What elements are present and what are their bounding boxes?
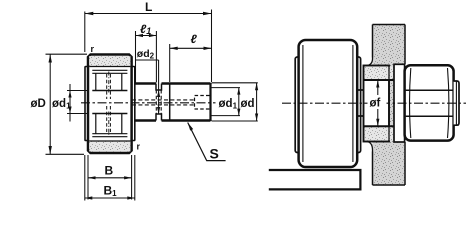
- svg-text:ød1: ød1: [219, 98, 238, 111]
- svg-text:r: r: [137, 142, 141, 152]
- svg-text:øD: øD: [31, 98, 46, 110]
- svg-text:øf: øf: [370, 98, 381, 110]
- svg-text:B1: B1: [104, 184, 118, 199]
- svg-text:L: L: [145, 0, 152, 14]
- svg-text:ød2: ød2: [137, 48, 155, 61]
- svg-text:ød: ød: [241, 98, 255, 110]
- svg-text:ℓ1: ℓ1: [140, 22, 151, 36]
- svg-text:r: r: [91, 44, 95, 54]
- svg-text:B: B: [105, 164, 114, 178]
- svg-text:S: S: [210, 146, 219, 162]
- svg-text:ød1: ød1: [52, 98, 71, 111]
- svg-text:ℓ: ℓ: [191, 32, 198, 46]
